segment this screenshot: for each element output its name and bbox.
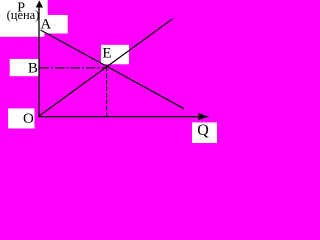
svg-text:E: E <box>102 45 111 61</box>
svg-text:O: O <box>23 111 34 127</box>
svg-text:Q: Q <box>197 122 209 139</box>
svg-text:A: A <box>40 16 51 32</box>
svg-text:B: B <box>28 61 38 77</box>
svg-text:(цена): (цена) <box>7 8 40 22</box>
